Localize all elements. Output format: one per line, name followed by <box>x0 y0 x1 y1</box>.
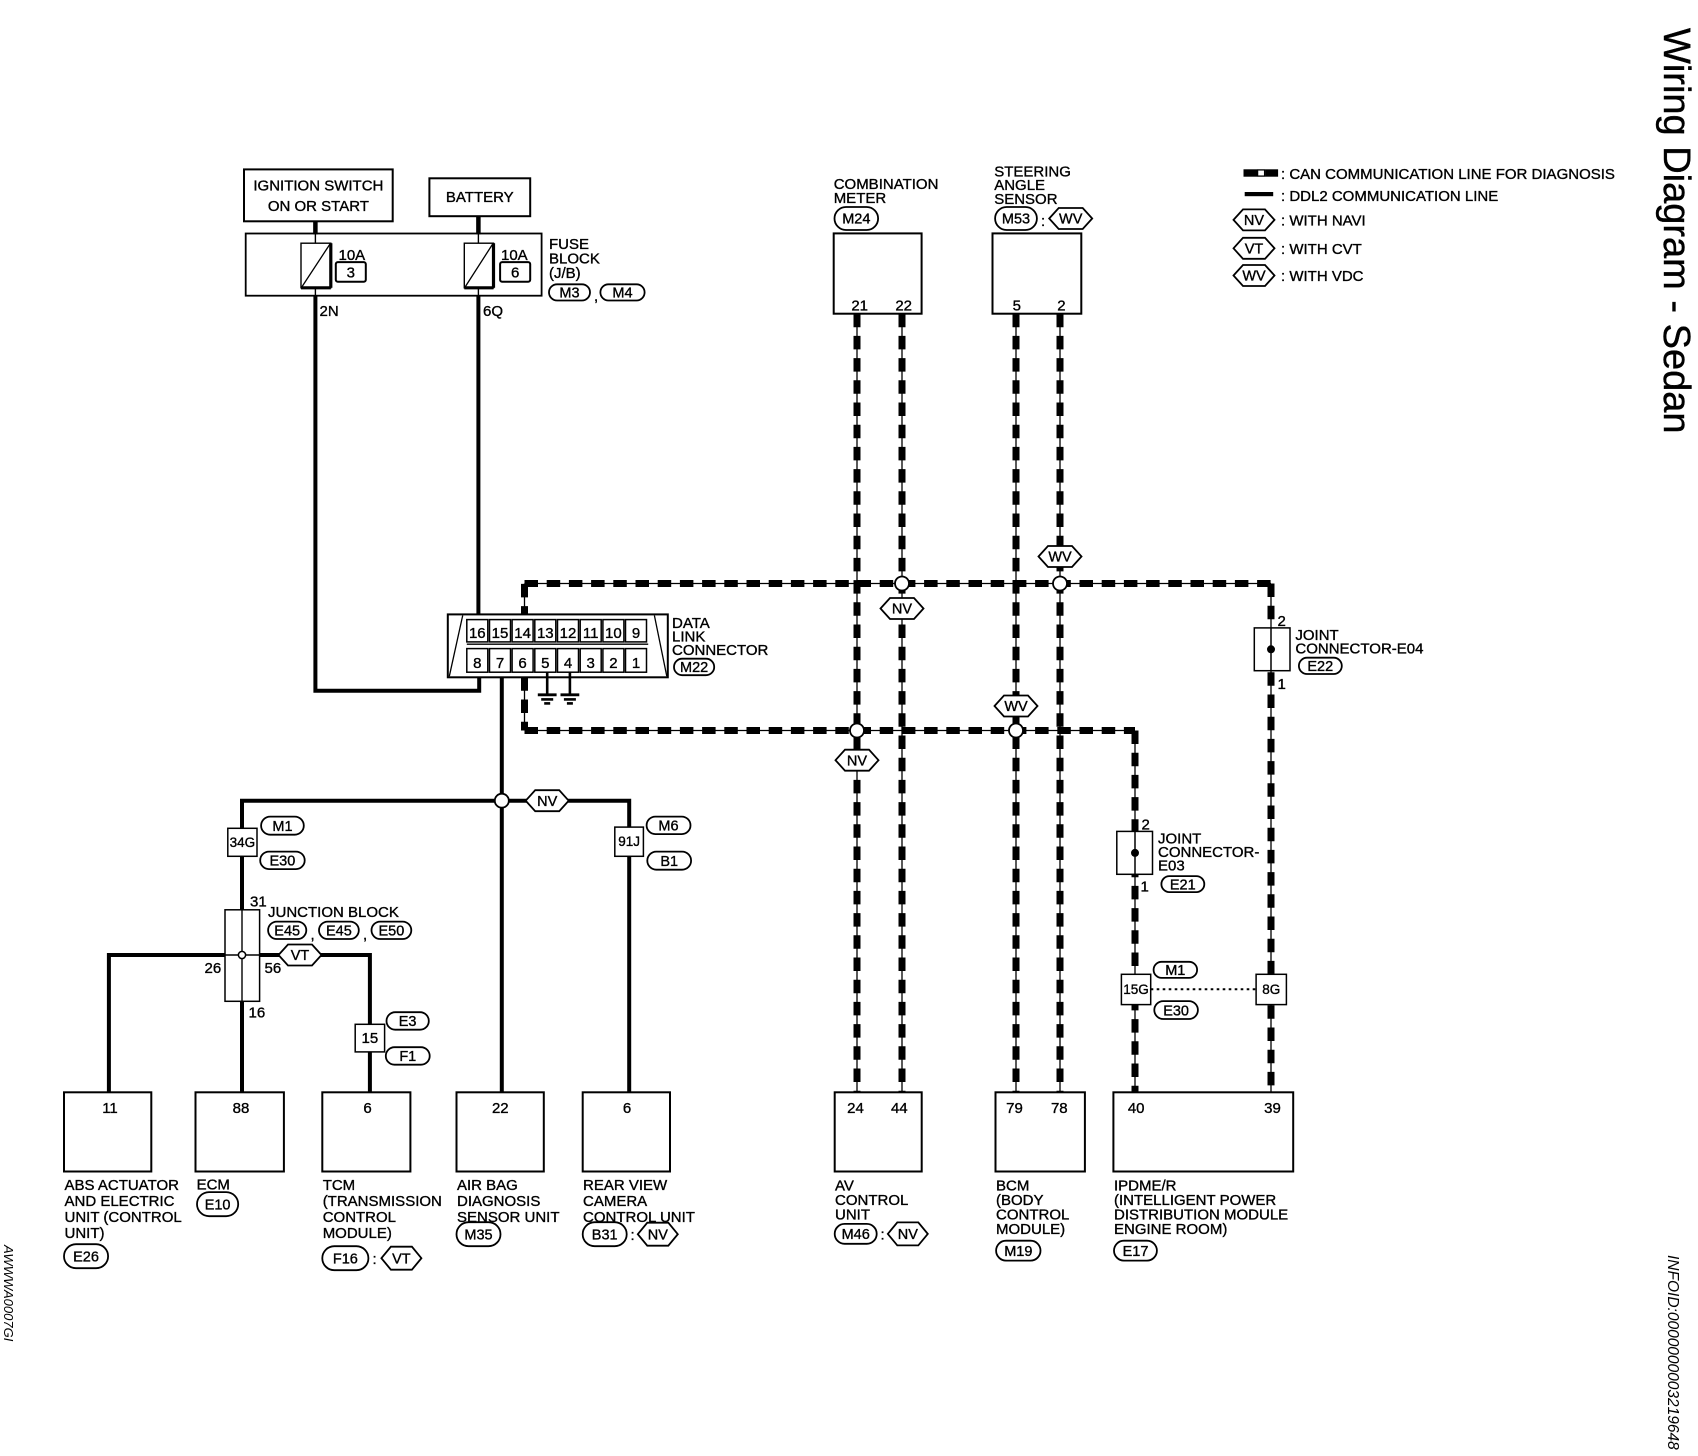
CAN wire to joint connector E04 and IPDM pin 39 <box>1270 584 1272 1093</box>
svg-text:JUNCTION BLOCK: JUNCTION BLOCK <box>268 904 399 921</box>
svg-text:INFOID:0000000003219648: INFOID:0000000003219648 <box>1664 1255 1681 1450</box>
svg-text:REAR VIEW: REAR VIEW <box>583 1177 668 1194</box>
connector M1 oval left <box>261 817 304 835</box>
svg-text:E03: E03 <box>1158 858 1185 875</box>
legend WV flag <box>1234 265 1364 286</box>
svg-text:M22: M22 <box>680 660 708 676</box>
svg-text:1: 1 <box>1141 879 1149 896</box>
BCM label <box>996 1178 1069 1239</box>
svg-text:: CAN COMMUNICATION LINE FOR D: : CAN COMMUNICATION LINE FOR DIAGNOSIS <box>1281 166 1615 183</box>
svg-text:CAMERA: CAMERA <box>583 1193 647 1210</box>
svg-text:6: 6 <box>623 1100 631 1117</box>
svg-text:(J/B): (J/B) <box>549 265 581 282</box>
CAN wire steering sensor pin5 to BCM pin79 <box>1015 314 1017 1093</box>
svg-text:M4: M4 <box>612 286 632 302</box>
svg-text:M3: M3 <box>559 286 579 302</box>
ABS actuator label <box>65 1177 182 1242</box>
DDL2 wire node to left branch <box>242 801 502 829</box>
CAN wire steering sensor pin2 to BCM pin78 <box>1059 314 1061 1093</box>
option flag NV below upper junction <box>881 598 924 619</box>
connector E21 <box>1161 876 1204 892</box>
BCM box <box>996 1092 1085 1171</box>
CAN bus lower horizontal <box>525 730 1136 732</box>
connector M53 <box>995 207 1037 230</box>
svg-text:E50: E50 <box>378 924 404 940</box>
svg-text:M6: M6 <box>658 819 678 835</box>
svg-text:39: 39 <box>1264 1100 1281 1117</box>
svg-text:31: 31 <box>250 894 267 911</box>
svg-text:16: 16 <box>249 1005 266 1022</box>
svg-text:26: 26 <box>205 960 222 977</box>
option flag NV on node right branch <box>526 790 569 811</box>
connector M6 oval <box>647 817 691 835</box>
ECM box <box>196 1092 284 1171</box>
ground at DLC pin4 <box>561 672 580 703</box>
dotted link 15G to 8G <box>1151 988 1256 990</box>
TCM label <box>323 1177 442 1242</box>
svg-text:11: 11 <box>102 1100 118 1117</box>
svg-text:40: 40 <box>1128 1100 1145 1117</box>
svg-text:2: 2 <box>609 655 617 672</box>
connector M3 <box>549 284 590 300</box>
svg-text:,: , <box>363 927 367 944</box>
svg-text:78: 78 <box>1051 1100 1068 1117</box>
svg-text:VT: VT <box>392 1251 411 1267</box>
ignition switch box <box>244 169 393 221</box>
svg-text:ECM: ECM <box>197 1177 230 1194</box>
DDL2 wire node to right branch <box>502 801 629 827</box>
svg-text:IGNITION SWITCH: IGNITION SWITCH <box>253 178 383 195</box>
wire 2N from fuse 3 to DLC pin 8 <box>315 296 479 691</box>
junction block node <box>238 951 245 958</box>
DDL2 wire DLC pin7 down to airbag pin22 <box>500 677 504 1092</box>
svg-text:15: 15 <box>362 1030 379 1047</box>
data link connector body <box>448 614 668 677</box>
svg-text:E30: E30 <box>1163 1003 1189 1019</box>
wire 16 branch to ECM pin88 <box>240 1001 244 1092</box>
joint connector E03 label <box>1158 831 1259 875</box>
svg-text:2N: 2N <box>320 303 339 320</box>
svg-text:2: 2 <box>1057 298 1065 315</box>
connector E22 <box>1299 658 1342 674</box>
svg-text:E30: E30 <box>269 854 295 870</box>
svg-text:NV: NV <box>847 753 867 769</box>
svg-text:NV: NV <box>648 1227 668 1243</box>
svg-text:WV: WV <box>1048 550 1072 566</box>
svg-text:10: 10 <box>605 625 622 642</box>
connector B1 oval <box>647 852 691 870</box>
fuse 10A no.3 <box>301 234 366 296</box>
DDL2 node at pin7 branch <box>495 794 509 808</box>
svg-text:WV: WV <box>1242 269 1266 285</box>
svg-text:34G: 34G <box>230 835 256 850</box>
fuse 10A no.6 <box>464 234 530 296</box>
svg-text:3: 3 <box>347 264 355 281</box>
svg-text:UNIT: UNIT <box>835 1207 870 1224</box>
svg-text:1: 1 <box>1278 676 1286 693</box>
svg-text:M24: M24 <box>842 212 870 228</box>
svg-text:: DDL2 COMMUNICATION LINE: : DDL2 COMMUNICATION LINE <box>1281 188 1498 205</box>
legend CAN line symbol <box>1244 166 1615 183</box>
svg-text:TCM: TCM <box>323 1177 356 1194</box>
svg-text:13: 13 <box>537 625 554 642</box>
battery box <box>429 178 530 216</box>
svg-text:UNIT): UNIT) <box>65 1225 105 1242</box>
combination meter box <box>834 233 922 314</box>
junction block internal wires <box>225 910 260 1002</box>
svg-text:AWWWA0007GI: AWWWA0007GI <box>1 1244 16 1342</box>
svg-text:NV: NV <box>898 1227 918 1243</box>
AV control unit label <box>835 1178 908 1224</box>
connector M46 <box>835 1224 877 1244</box>
connector M1 oval right <box>1154 962 1198 978</box>
connector E26 <box>64 1244 108 1268</box>
svg-text:M1: M1 <box>272 819 292 835</box>
svg-text:(TRANSMISSION: (TRANSMISSION <box>323 1193 442 1210</box>
svg-text:5: 5 <box>541 655 549 672</box>
connector M4 <box>600 284 644 300</box>
svg-text:M53: M53 <box>1002 212 1030 228</box>
svg-text:M46: M46 <box>842 1227 870 1243</box>
ground at DLC pin5 <box>538 672 557 703</box>
CAN wire DLC pin6 drop <box>524 677 526 730</box>
connector E10 <box>197 1192 238 1216</box>
svg-text:NV: NV <box>1244 213 1264 229</box>
svg-text::: : <box>631 1227 635 1244</box>
svg-text:21: 21 <box>851 298 868 315</box>
svg-text:E10: E10 <box>205 1197 231 1213</box>
svg-text:E45: E45 <box>326 924 352 940</box>
svg-text:22: 22 <box>895 298 912 315</box>
svg-text:14: 14 <box>514 625 531 642</box>
connector M22 <box>674 659 714 676</box>
fuse block (J/B) outline <box>246 234 542 296</box>
svg-text:M1: M1 <box>1165 963 1185 979</box>
AV control unit box <box>835 1092 922 1171</box>
wire 56 branch to fuse 15 <box>260 955 370 1024</box>
svg-text:E45: E45 <box>274 924 300 940</box>
svg-text::: : <box>881 1227 885 1244</box>
connector E45 second <box>319 922 359 939</box>
TCM box <box>322 1092 410 1171</box>
svg-text:15: 15 <box>492 625 509 642</box>
connector 15G box <box>1121 974 1150 1004</box>
svg-text:METER: METER <box>834 190 887 207</box>
fuse 15 box <box>355 1024 384 1052</box>
connector 34G box <box>228 828 257 856</box>
joint connector E03 box <box>1117 817 1153 896</box>
svg-text:,: , <box>311 927 315 944</box>
svg-text:16: 16 <box>469 625 486 642</box>
DLC label <box>672 615 769 659</box>
wire 6Q from fuse 6 to DLC pin 16 <box>476 296 480 621</box>
svg-text:E3: E3 <box>399 1014 417 1030</box>
fuse block label <box>549 236 600 282</box>
option flag NV below lower junction <box>836 750 879 771</box>
combination meter label <box>834 176 939 207</box>
svg-text:M19: M19 <box>1004 1244 1032 1260</box>
svg-text:CONTROL: CONTROL <box>323 1209 396 1226</box>
legend NV flag <box>1234 209 1366 230</box>
connector F16 <box>322 1246 368 1270</box>
option flag VT on 56 branch <box>279 945 322 966</box>
svg-text:5: 5 <box>1013 298 1021 315</box>
svg-text:NV: NV <box>892 602 912 618</box>
svg-text:CONNECTOR: CONNECTOR <box>672 642 769 659</box>
connector M19 <box>996 1241 1040 1261</box>
option flag NV at AV unit <box>888 1222 928 1245</box>
DLC pin cells <box>467 620 648 673</box>
air bag label <box>457 1177 560 1226</box>
connector E3 oval <box>387 1012 429 1029</box>
svg-text:WV: WV <box>1004 699 1028 715</box>
DDL2 wire 34G to junction block <box>240 856 244 910</box>
joint connector E04 box <box>1254 613 1290 693</box>
wire fuse15 to TCM pin6 <box>368 1052 372 1092</box>
CAN wire DLC pin14 riser <box>524 584 526 620</box>
junction block outline <box>225 910 260 1002</box>
svg-text:,: , <box>594 288 598 305</box>
connector E50 <box>372 922 412 939</box>
junction node upper bus x1060 <box>1053 577 1067 591</box>
svg-text:: WITH VDC: : WITH VDC <box>1281 268 1364 285</box>
connector B31 <box>583 1222 627 1246</box>
svg-text:6: 6 <box>518 655 526 672</box>
svg-text:24: 24 <box>847 1100 864 1117</box>
svg-text:MODULE): MODULE) <box>323 1225 392 1242</box>
option flag WV <box>1049 208 1092 229</box>
svg-text:ON OR START: ON OR START <box>268 198 369 215</box>
steering angle sensor label <box>994 163 1071 208</box>
svg-text:2: 2 <box>1142 817 1150 834</box>
joint connector E04 label <box>1295 627 1423 658</box>
svg-text:VT: VT <box>1245 242 1264 258</box>
connector M35 <box>457 1222 501 1246</box>
svg-text:: WITH NAVI: : WITH NAVI <box>1281 213 1366 230</box>
svg-text:BATTERY: BATTERY <box>446 189 514 206</box>
svg-text:7: 7 <box>496 655 504 672</box>
svg-text:SENSOR: SENSOR <box>994 191 1058 208</box>
CAN wire combination meter pin22 to AV pin44 <box>901 314 903 1093</box>
junction node lower bus x1016 <box>1009 724 1023 738</box>
svg-text:44: 44 <box>891 1100 908 1117</box>
connector 8G box <box>1256 974 1286 1004</box>
connector E30 oval right <box>1154 1001 1198 1019</box>
rear view camera control unit box <box>583 1092 670 1171</box>
junction node upper bus x902 <box>895 577 909 591</box>
svg-text:WV: WV <box>1059 212 1083 228</box>
wire ignition to fuse block <box>313 221 318 234</box>
svg-text:12: 12 <box>560 625 577 642</box>
svg-text:88: 88 <box>233 1100 250 1117</box>
svg-text:E21: E21 <box>1170 877 1196 893</box>
svg-text:1: 1 <box>632 655 640 672</box>
svg-text:E26: E26 <box>73 1249 99 1265</box>
svg-text:6Q: 6Q <box>483 303 503 320</box>
svg-text:AND ELECTRIC: AND ELECTRIC <box>65 1193 175 1210</box>
option flag WV above lower junction <box>995 696 1038 717</box>
connector 91J box <box>615 827 644 856</box>
svg-text:6: 6 <box>511 264 519 281</box>
rear view camera label <box>583 1177 695 1226</box>
svg-text:4: 4 <box>564 655 572 672</box>
CAN wire combination meter pin21 to AV pin24 <box>856 314 858 1093</box>
connector E45 <box>268 922 306 939</box>
svg-text:B31: B31 <box>592 1227 618 1243</box>
svg-text::: : <box>373 1251 377 1268</box>
svg-text:ENGINE ROOM): ENGINE ROOM) <box>1114 1221 1227 1238</box>
junction node lower bus x857 <box>850 724 864 738</box>
connector E17 <box>1114 1241 1157 1261</box>
svg-text:E17: E17 <box>1123 1244 1149 1260</box>
IPDM label <box>1114 1178 1288 1239</box>
svg-text:NV: NV <box>537 794 557 810</box>
connector F1 oval <box>386 1047 430 1065</box>
wire 26 branch to ABS pin11 <box>109 955 225 1092</box>
svg-text:DIAGNOSIS: DIAGNOSIS <box>457 1193 540 1210</box>
steering angle sensor box <box>993 233 1082 314</box>
option flag VT at TCM <box>381 1247 421 1270</box>
svg-text:3: 3 <box>587 655 595 672</box>
legend DDL2 line symbol <box>1245 188 1499 205</box>
svg-text:22: 22 <box>492 1100 509 1117</box>
svg-text::: : <box>1041 213 1045 230</box>
svg-text:F1: F1 <box>399 1049 416 1065</box>
air bag diagnosis sensor unit box <box>457 1092 544 1171</box>
svg-text:CONNECTOR-E04: CONNECTOR-E04 <box>1295 641 1423 658</box>
svg-text:2: 2 <box>1278 613 1286 630</box>
svg-text:8G: 8G <box>1262 982 1280 997</box>
svg-text:UNIT (CONTROL: UNIT (CONTROL <box>65 1209 182 1226</box>
svg-text:E22: E22 <box>1307 659 1333 675</box>
svg-text:Wiring Diagram - Sedan: Wiring Diagram - Sedan <box>1655 28 1697 433</box>
wire battery to fuse block <box>476 216 481 234</box>
CAN wire to joint connector E03 and IPDM pin 40 <box>1134 731 1136 1093</box>
svg-text:6: 6 <box>363 1100 371 1117</box>
svg-text:AIR BAG: AIR BAG <box>457 1177 518 1194</box>
svg-text:M35: M35 <box>464 1227 492 1243</box>
svg-text:ABS ACTUATOR: ABS ACTUATOR <box>65 1177 180 1194</box>
connector M24 <box>835 207 879 230</box>
legend VT flag <box>1234 238 1362 259</box>
svg-text:11: 11 <box>583 625 599 642</box>
svg-text:B1: B1 <box>660 854 678 870</box>
svg-text:15G: 15G <box>1123 982 1149 997</box>
svg-text:MODULE): MODULE) <box>996 1221 1065 1238</box>
svg-text:: WITH CVT: : WITH CVT <box>1281 241 1362 258</box>
svg-text:8: 8 <box>473 655 481 672</box>
connector E30 oval left <box>260 852 305 870</box>
svg-text:9: 9 <box>632 625 640 642</box>
svg-text:F16: F16 <box>333 1251 358 1267</box>
svg-text:VT: VT <box>291 948 310 964</box>
svg-text:79: 79 <box>1006 1100 1023 1117</box>
DDL2 wire 91J down to rear camera pin6 <box>627 856 631 1092</box>
option flag NV at rear camera <box>638 1223 678 1246</box>
IPDM E/R box <box>1113 1092 1293 1171</box>
svg-text:91J: 91J <box>618 834 640 849</box>
svg-text:56: 56 <box>265 960 282 977</box>
option flag WV on steering pin2 wire <box>1039 546 1082 567</box>
CAN bus upper horizontal <box>525 583 1272 585</box>
ABS actuator unit box <box>64 1092 151 1171</box>
